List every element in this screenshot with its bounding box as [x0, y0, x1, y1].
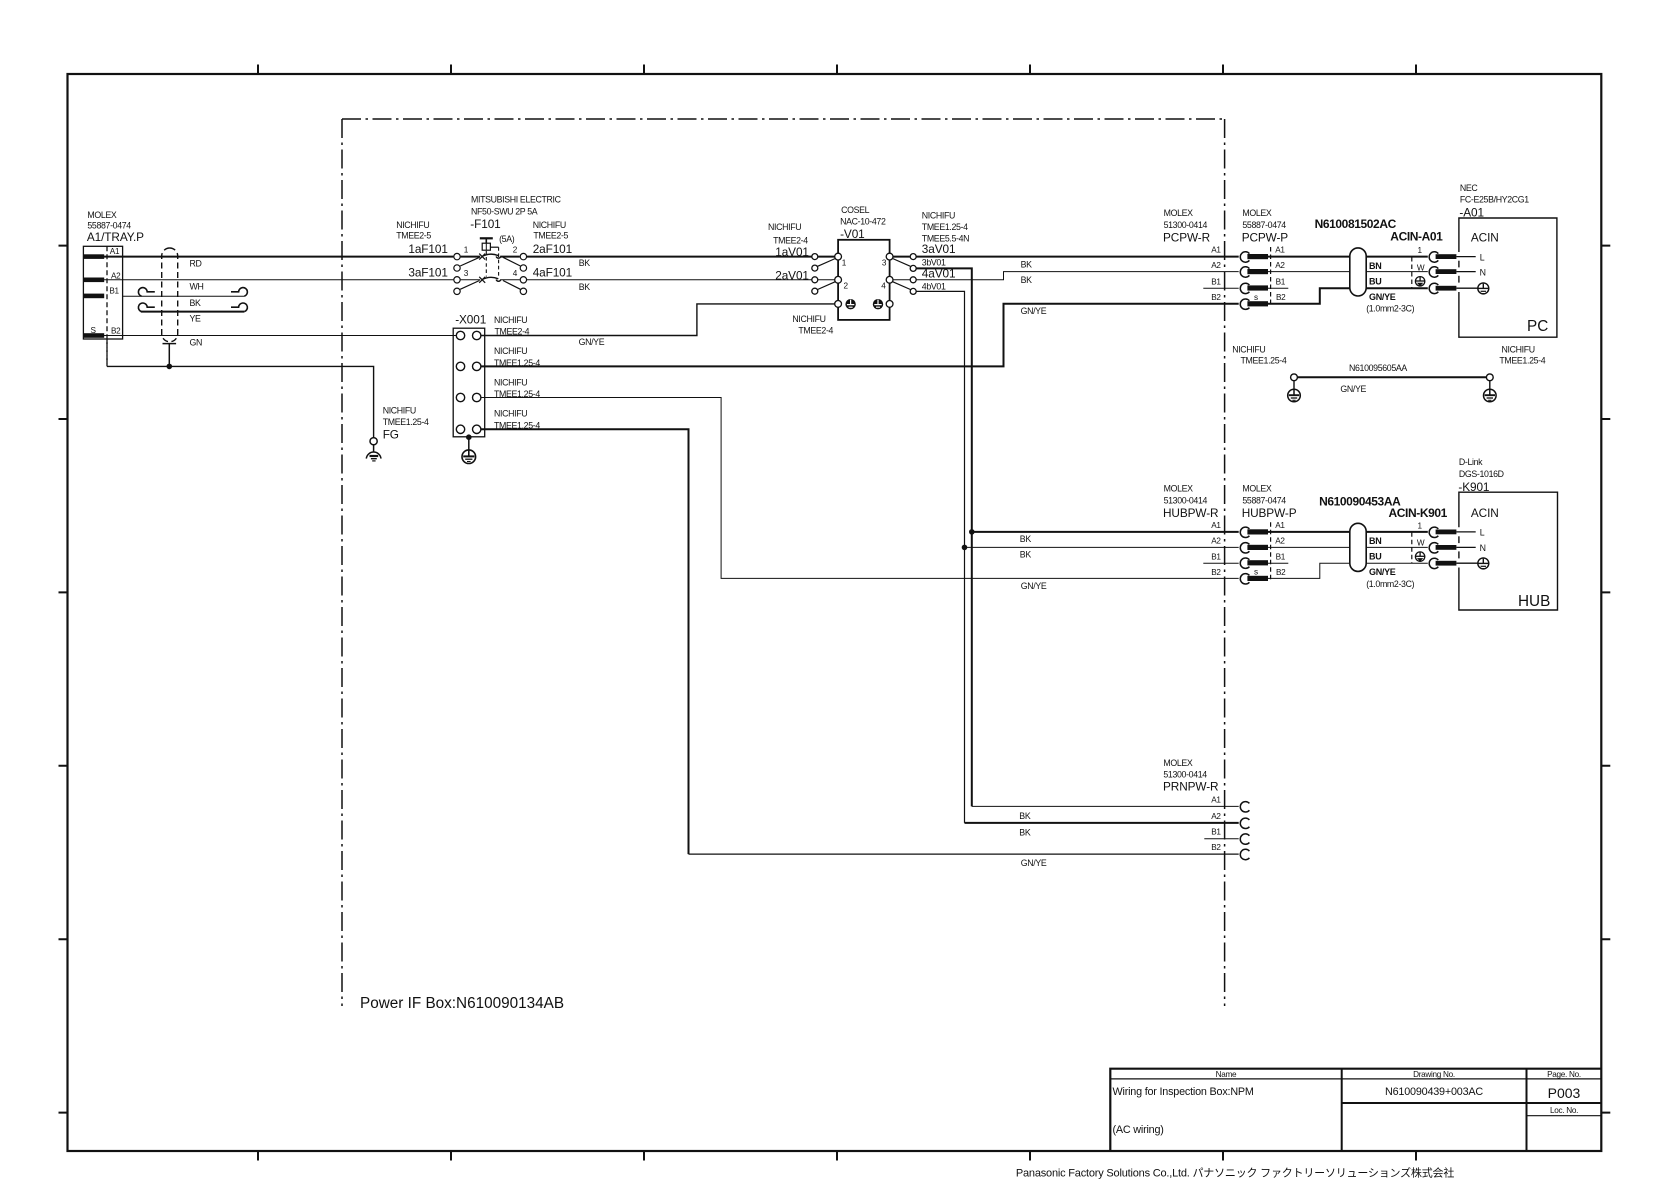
svg-text:MOLEX: MOLEX [87, 210, 117, 220]
svg-text:3aF101: 3aF101 [408, 265, 447, 279]
terminal lug 4bV01 [910, 288, 916, 294]
wire HUBPW B2 to ACIN-K901 earth with jog [1268, 563, 1428, 578]
wire 3bV01 tap down the page [917, 268, 972, 806]
svg-text:B1: B1 [1211, 277, 1221, 286]
svg-text:-A01: -A01 [1459, 205, 1484, 219]
terminal lug 2aV01 [812, 277, 818, 283]
svg-text:FC-E25B/HY2CG1: FC-E25B/HY2CG1 [1460, 195, 1529, 205]
Power IF Box dashed boundary top edge [342, 118, 1225, 120]
noise filter V01 pin numbers [842, 258, 887, 290]
svg-text:1: 1 [842, 258, 847, 267]
breaker F101 pole 2 wires and contact [461, 279, 520, 281]
noise filter V01 pin 3 circle [886, 253, 893, 260]
terminal lug spare below 1aF101 [454, 265, 460, 271]
earth link right drop wire [1489, 381, 1491, 389]
wire ACIN-A01 earth into PC [1456, 287, 1477, 289]
svg-text:NICHIFU: NICHIFU [494, 315, 527, 325]
connector HUBPW receptacle arc A1 [1240, 527, 1249, 537]
title block texts [1113, 1070, 1581, 1136]
wire BK cut wire with fold-back hooks [123, 288, 248, 297]
svg-text:TMEE2-5: TMEE2-5 [533, 231, 568, 241]
wire GN/YE label before HUBPW B2 [1021, 581, 1047, 591]
svg-text:NF50-SWU 2P 5A: NF50-SWU 2P 5A [471, 206, 538, 216]
plug ACIN-K901 PE symbol on boundary [1415, 552, 1424, 562]
svg-text:A2: A2 [1275, 536, 1285, 545]
earth link left lug [1291, 374, 1298, 381]
svg-text:NICHIFU: NICHIFU [383, 406, 416, 416]
footer company text [1016, 1166, 1454, 1180]
connector HUBPW receptacle arc B2 [1240, 574, 1249, 584]
connector HUBPW pin labels right column [1254, 521, 1286, 577]
wire X001 earth drop [468, 437, 470, 450]
breaker F101 pin numbers 1 2 [464, 246, 518, 255]
junction X001 body to earth [466, 434, 472, 440]
svg-text:PRNPW-R: PRNPW-R [1163, 780, 1218, 794]
connector HUBPW pin labels left column [1211, 521, 1221, 577]
wire WH label [190, 282, 204, 292]
terminal lug 4aV01 [910, 277, 916, 283]
svg-text:GN/YE: GN/YE [1021, 306, 1047, 316]
terminal lug 1aF101 [454, 253, 460, 259]
plug ACIN-K901 pin 1 label [1418, 522, 1423, 531]
svg-text:A1: A1 [110, 247, 120, 256]
computer PC labels [1459, 183, 1548, 335]
wire GN label [190, 337, 203, 347]
svg-text:N: N [1480, 543, 1486, 553]
wire shield S dashed drop from connector [106, 339, 108, 366]
svg-text:BN: BN [1369, 261, 1381, 271]
connector PRNPW receptacle arc A1 [1240, 802, 1249, 812]
plug ACIN-A01 pin 1 label [1418, 246, 1423, 255]
plug ACIN-A01 crimp pin earth [1436, 286, 1457, 291]
wire WH pin A2 row [104, 279, 453, 281]
noise filter V01 bottom labels NICHIFU TMEE2-4 [792, 314, 833, 336]
svg-text:ACIN: ACIN [1471, 231, 1499, 245]
connector PRNPW-R part labels [1163, 758, 1218, 794]
svg-text:B1: B1 [1276, 277, 1286, 286]
wire X001 row3 to HUBPW B2 [481, 398, 1239, 579]
terminal lug spare below 2aF101 [520, 265, 526, 271]
connector PRNPW receptacle arc B1 [1240, 834, 1249, 844]
wire HUBPW A1 feed [972, 531, 1239, 533]
svg-text:-X001: -X001 [455, 312, 486, 326]
wire GN/YE X001 row2 bus to PCPW-R B2 [481, 304, 1239, 367]
connector HUBPW-R / HUBPW-P part labels [1163, 484, 1297, 521]
breaker F101 trip unit T-bar and square [480, 238, 493, 250]
title block outline [1110, 1069, 1601, 1151]
ethernet hub K901 box [1459, 492, 1558, 610]
connector A1/TRAY.P crimp pin A1 [83, 254, 104, 259]
svg-text:4bV01: 4bV01 [922, 282, 946, 292]
svg-text:COSEL: COSEL [841, 205, 870, 215]
svg-text:L: L [1480, 528, 1485, 538]
svg-text:A2: A2 [1211, 536, 1221, 545]
svg-text:B1: B1 [1211, 828, 1221, 837]
svg-text:1: 1 [1418, 246, 1423, 255]
connector PRNPW pin labels [1211, 795, 1221, 852]
svg-text:NICHIFU: NICHIFU [396, 220, 429, 230]
svg-text:MOLEX: MOLEX [1163, 758, 1193, 768]
terminal lug spare below 2aV01 [812, 288, 818, 294]
wire HUBPW B1 stub right [1268, 562, 1288, 564]
svg-text:ACIN: ACIN [1471, 506, 1499, 520]
breaker F101 pole 2 contact cross [479, 277, 485, 283]
noise filter V01 ground pin right circle [886, 301, 893, 308]
svg-text:51300-0414: 51300-0414 [1164, 495, 1208, 505]
wire ACIN-K901 earth into HUB [1456, 562, 1477, 564]
terminal lug FG [370, 438, 377, 445]
terminal lug 3aV01 [910, 254, 916, 260]
wire YE label [190, 314, 202, 324]
svg-text:Page. No.: Page. No. [1547, 1070, 1581, 1079]
svg-text:55887-0474: 55887-0474 [1242, 220, 1286, 230]
wire 4aV01 to PCPW-R A2 with jog [917, 272, 1239, 280]
plug ACIN-A01 W label [1417, 263, 1425, 272]
svg-text:B1: B1 [1211, 552, 1221, 561]
earth link right PE ground symbol [1484, 389, 1497, 402]
wire PCPW B1 stub left [1203, 287, 1238, 289]
svg-text:BK: BK [1020, 534, 1032, 544]
svg-text:GN/YE: GN/YE [1369, 292, 1396, 302]
svg-text:TMEE2-4: TMEE2-4 [798, 325, 833, 335]
connector HUBPW crimp pin A2 [1247, 545, 1268, 550]
earth link N610095605AA wire [1297, 376, 1486, 378]
terminal block X001 body [453, 328, 485, 437]
svg-text:GN/YE: GN/YE [1021, 858, 1047, 868]
svg-text:GN/YE: GN/YE [1021, 581, 1047, 591]
svg-text:TMEE2-5: TMEE2-5 [396, 231, 431, 241]
Power IF Box name label [360, 995, 564, 1012]
svg-text:A1: A1 [1211, 521, 1221, 530]
noise filter V01 right double-crimp diagonals [893, 259, 911, 290]
connector A1/TRAY.P part labels [87, 210, 144, 244]
computer PC box [1459, 218, 1557, 337]
breaker F101 pole 1 double-crimp diagonals [460, 257, 520, 266]
svg-text:MOLEX: MOLEX [1164, 484, 1194, 494]
svg-text:TMEE1.25-4: TMEE1.25-4 [383, 417, 429, 427]
wire PCPW A2 to ACIN-A01 [1268, 271, 1428, 273]
svg-text:NEC: NEC [1460, 183, 1479, 193]
svg-text:(AC wiring): (AC wiring) [1113, 1124, 1164, 1136]
svg-text:1aV01: 1aV01 [775, 245, 809, 259]
plug ACIN-K901 crimp pin L [1436, 530, 1457, 535]
wire X001 row4 to PRNPW B2 [481, 429, 689, 854]
wire ACIN-K901 N into HUB [1456, 546, 1475, 548]
connector PCPW receptacle arc B1 [1240, 283, 1249, 293]
svg-text:N610081502AC: N610081502AC [1315, 217, 1397, 231]
cable name N610090453AA [1319, 494, 1401, 508]
connector PCPW receptacle arc B2 [1240, 299, 1249, 309]
noise filter V01 pin 2 circle [835, 276, 842, 283]
svg-text:BK: BK [190, 298, 202, 308]
wire HUBPW A2 feed [965, 546, 1239, 548]
wire BK label before HUBPW A2 [1020, 550, 1032, 560]
svg-text:NICHIFU: NICHIFU [922, 211, 955, 221]
connector A1/TRAY.P crimp pin B2 [83, 333, 104, 338]
svg-text:HUBPW-R: HUBPW-R [1163, 506, 1218, 520]
svg-text:PCPW-R: PCPW-R [1163, 231, 1210, 245]
svg-text:Panasonic Factory Solutions Co: Panasonic Factory Solutions Co.,Ltd. パナソ… [1016, 1166, 1454, 1180]
junction shield drain to shield bus [167, 364, 173, 370]
svg-text:A1/TRAY.P: A1/TRAY.P [87, 230, 144, 244]
plug ACIN-A01 dashed boundary [1411, 257, 1413, 288]
noise filter V01 (COSEL NAC-10-472) body [838, 240, 890, 320]
svg-text:NICHIFU: NICHIFU [494, 377, 527, 387]
svg-text:HUB: HUB [1518, 593, 1550, 610]
wire PRNPW A1 feed [972, 805, 1239, 807]
svg-text:1: 1 [1418, 522, 1423, 531]
connector PCPW crimp pin B2 [1247, 301, 1268, 306]
wire GN/YE label before PCPW B2 [1021, 306, 1047, 316]
svg-text:4: 4 [881, 282, 886, 291]
connector PRNPW receptacle arc A2 [1240, 818, 1249, 828]
plug ACIN-A01 crimp pin L [1436, 254, 1457, 259]
cable shield drain T symbol [163, 344, 177, 367]
svg-text:BU: BU [1369, 552, 1381, 562]
svg-text:A1: A1 [1275, 246, 1285, 255]
svg-text:N610090439+003AC: N610090439+003AC [1385, 1086, 1483, 1098]
svg-text:B2: B2 [1276, 293, 1286, 302]
svg-text:DGS-1016D: DGS-1016D [1459, 469, 1504, 479]
connector PCPW-P internal dashed separator [1270, 247, 1272, 307]
svg-text:BK: BK [579, 282, 591, 292]
frame zone tick marks left [59, 246, 68, 1113]
svg-text:A2: A2 [1211, 812, 1221, 821]
breaker F101 pole 1 wires and contact [461, 256, 520, 258]
cable core labels BN BU GN/YE [1366, 536, 1414, 589]
svg-text:RD: RD [190, 258, 202, 268]
PC earth PE symbol [1478, 283, 1489, 294]
svg-text:MOLEX: MOLEX [1242, 208, 1272, 218]
svg-text:B2: B2 [1276, 568, 1286, 577]
connector HUBPW-P internal dashed separator [1270, 522, 1272, 581]
connector PCPW-R / PCPW-P part labels [1163, 208, 1288, 244]
svg-text:Name: Name [1216, 1070, 1237, 1079]
svg-text:-V01: -V01 [840, 227, 865, 241]
earth link N610095605AA labels [1232, 344, 1546, 394]
cable sheath oval HUBPW [1350, 523, 1366, 571]
wire GN/YE X001 row1 to V01 ground pin [481, 304, 835, 336]
svg-text:B2: B2 [1211, 843, 1221, 852]
svg-text:N610095605AA: N610095605AA [1349, 363, 1407, 373]
svg-text:S: S [91, 326, 97, 335]
svg-text:TMEE1.25-4: TMEE1.25-4 [1499, 356, 1545, 366]
plug ACIN-K901 receptacle arc earth [1429, 558, 1438, 568]
terminal block X001 row 2 terminals [456, 362, 481, 370]
wire BK 2aF101 to 1aV01 [527, 256, 812, 258]
svg-text:BK: BK [1019, 828, 1031, 838]
svg-text:51300-0414: 51300-0414 [1163, 770, 1207, 780]
svg-text:MOLEX: MOLEX [1242, 484, 1272, 494]
wire BK label [190, 298, 202, 308]
wire PRNPW A2 feed [965, 822, 1239, 824]
noise filter V01 ground pin left circle [835, 301, 842, 308]
wire BK label before PCPW A1 [1021, 259, 1033, 269]
plug ACIN-K901 crimp pin earth [1436, 561, 1457, 566]
connector A1/TRAY.P pin name labels [91, 247, 122, 335]
svg-text:GN/YE: GN/YE [1369, 567, 1396, 577]
svg-text:GN: GN [190, 337, 203, 347]
svg-text:1: 1 [464, 246, 469, 255]
connector PCPW crimp pin B1 [1247, 285, 1268, 290]
svg-text:GN/YE: GN/YE [1340, 384, 1366, 394]
svg-text:NICHIFU: NICHIFU [1232, 344, 1265, 354]
wire ACIN-K901 L into HUB [1456, 531, 1475, 533]
svg-text:TMEE1.25-4: TMEE1.25-4 [1241, 356, 1287, 366]
wire HUBPW A1 to ACIN-K901 [1268, 531, 1428, 533]
plug ACIN-A01 receptacle arc earth [1429, 283, 1438, 293]
wire V01 lug stubs [818, 256, 910, 258]
terminal lug spare below 3aF101 [454, 288, 460, 294]
svg-text:A2: A2 [1211, 261, 1221, 270]
svg-text:ACIN-K901: ACIN-K901 [1389, 506, 1448, 520]
svg-text:PCPW-P: PCPW-P [1242, 231, 1289, 245]
svg-text:A2: A2 [1275, 261, 1285, 270]
connector PCPW pin labels left column [1211, 246, 1221, 303]
plug ACIN-A01 receptacle arc L [1429, 252, 1438, 262]
svg-text:MOLEX: MOLEX [1164, 208, 1194, 218]
svg-text:3: 3 [464, 269, 469, 278]
noise filter V01 left lug labels [768, 222, 809, 282]
plug ACIN-K901 crimp pin N [1436, 545, 1457, 550]
svg-text:NICHIFU: NICHIFU [1502, 344, 1535, 354]
wire ACIN-A01 L into PC [1456, 256, 1475, 258]
wire BK label before PRNPW A2 [1019, 828, 1031, 838]
terminal block X001 name label [455, 312, 486, 326]
connector HUBPW receptacle arc A2 [1240, 543, 1249, 553]
svg-text:BK: BK [1021, 259, 1033, 269]
svg-text:-F101: -F101 [470, 217, 500, 231]
plug ACIN-K901 receptacle arc N [1429, 543, 1438, 553]
noise filter V01 pin 4 circle [886, 276, 893, 283]
wire BK 4aF101 to 2aV01 [527, 279, 812, 281]
HUB ACIN L N labels [1480, 528, 1486, 553]
connector A1/TRAY.P crimp pin B1 [83, 294, 104, 299]
svg-text:A1: A1 [1275, 521, 1285, 530]
cable sheath oval PCPW [1350, 248, 1366, 296]
wire BK label after 2aF101 [579, 258, 591, 268]
earth link left PE ground symbol [1288, 389, 1301, 402]
svg-text:4: 4 [513, 269, 518, 278]
wire PCPW B2 to ACIN-A01 earth with jog [1268, 288, 1428, 304]
breaker F101 pole 2 arm [482, 277, 501, 281]
plug ACIN-K901 dashed boundary [1411, 532, 1413, 563]
terminal block X001 row 4 terminals [456, 425, 481, 433]
terminal lug 4aF101 [520, 277, 526, 283]
terminal lug spare below 1aV01 [812, 265, 818, 271]
terminal block X001 row labels [494, 315, 540, 431]
wire BK label before PRNPW A1 [1019, 811, 1031, 821]
wire HUBPW B1 stub left [1203, 562, 1238, 564]
frame zone tick marks right [1601, 246, 1610, 1113]
svg-text:W: W [1417, 539, 1425, 548]
frame zone tick marks bottom [258, 1151, 1416, 1161]
svg-text:B2: B2 [1211, 293, 1221, 302]
earth link right lug [1486, 374, 1493, 381]
breaker F101 pole 1 contact cross [479, 254, 485, 260]
junction 4bV01 bus to HUBPW A2 [962, 545, 968, 551]
svg-text:(1.0mm2-3C): (1.0mm2-3C) [1366, 579, 1414, 589]
svg-text:MITSUBISHI ELECTRIC: MITSUBISHI ELECTRIC [471, 195, 562, 205]
wire GN pin B2 row to X001 [104, 335, 456, 337]
svg-text:B2: B2 [1211, 568, 1221, 577]
svg-text:B2: B2 [111, 326, 121, 335]
svg-text:BK: BK [1019, 811, 1031, 821]
svg-text:N: N [1480, 268, 1486, 278]
svg-text:A1: A1 [1211, 795, 1221, 804]
svg-text:NICHIFU: NICHIFU [533, 220, 566, 230]
frame zone tick marks top [258, 65, 1416, 75]
wire 4bV01 tap down the page [917, 291, 965, 823]
wire ACIN-A01 N into PC [1456, 271, 1475, 273]
svg-text:L: L [1480, 252, 1485, 262]
svg-text:Loc. No.: Loc. No. [1550, 1106, 1578, 1115]
svg-text:A1: A1 [1211, 246, 1221, 255]
noise filter V01 pin 1 circle [835, 253, 842, 260]
connector PRNPW receptacle arc B2 [1240, 849, 1249, 859]
plug ACIN-A01 crimp pin N [1436, 269, 1457, 274]
wire GN/YE label before PRNPW B2 [1021, 858, 1047, 868]
svg-text:Drawing No.: Drawing No. [1413, 1070, 1455, 1079]
svg-text:HUBPW-P: HUBPW-P [1242, 506, 1297, 520]
plug ACIN-K901 name [1389, 506, 1448, 520]
terminal lug spare below 4aF101 [520, 288, 526, 294]
svg-text:P003: P003 [1548, 1085, 1581, 1101]
Power IF Box dashed boundary right edge [1224, 119, 1226, 1006]
svg-text:2aF101: 2aF101 [533, 242, 572, 256]
wire GN/YE label X001 row1 [579, 337, 605, 347]
connector HUBPW crimp pin B2 [1247, 576, 1268, 581]
svg-text:NICHIFU: NICHIFU [494, 409, 527, 419]
svg-text:FG: FG [383, 428, 399, 442]
wire YE cut wire with fold-back hooks [138, 303, 247, 312]
wire BK label before PCPW A2 [1021, 275, 1033, 285]
terminal lug 3bV01 [910, 265, 916, 271]
connector A1/TRAY.P internal dashed separator [106, 246, 108, 366]
FG labels NICHIFU TMEE1.25-4 FG [383, 406, 429, 442]
HUB earth PE symbol [1478, 558, 1489, 569]
svg-text:2: 2 [513, 246, 518, 255]
noise filter V01 internal PE symbol right (filled) [873, 299, 883, 309]
svg-text:4aF101: 4aF101 [533, 265, 572, 279]
ground symbol X001 PE circle [462, 450, 476, 464]
svg-text:s: s [1254, 568, 1258, 577]
wire BK label after 4aF101 [579, 282, 591, 292]
PC ACIN L N labels [1480, 252, 1486, 277]
connector PCPW crimp pin A2 [1247, 269, 1268, 274]
svg-text:1aF101: 1aF101 [408, 242, 447, 256]
wire HUBPW A2 to ACIN-K901 [1268, 546, 1428, 548]
breaker F101 lug labels [396, 220, 572, 279]
svg-text:TMEE2-4: TMEE2-4 [773, 236, 808, 246]
svg-text:W: W [1417, 263, 1425, 272]
connector HUBPW crimp pin A1 [1247, 529, 1268, 534]
plug ACIN-K901 W label [1417, 539, 1425, 548]
svg-text:TMEE1.25-4: TMEE1.25-4 [922, 222, 968, 232]
plug ACIN-K901 receptacle arc L [1429, 527, 1438, 537]
connector PCPW receptacle arc A2 [1240, 267, 1249, 277]
noise filter V01 left double-crimp diagonals [818, 259, 836, 290]
wire shield bus to FG [107, 366, 374, 437]
connector PCPW crimp pin A1 [1247, 254, 1268, 259]
svg-text:NICHIFU: NICHIFU [494, 346, 527, 356]
svg-text:BK: BK [1021, 275, 1033, 285]
svg-text:2aV01: 2aV01 [775, 268, 809, 282]
terminal lug 1aV01 [812, 254, 818, 260]
terminal block X001 row 3 terminals [456, 393, 481, 401]
plug ACIN-A01 PE symbol on boundary [1415, 277, 1424, 287]
svg-text:55887-0474: 55887-0474 [1242, 495, 1286, 505]
